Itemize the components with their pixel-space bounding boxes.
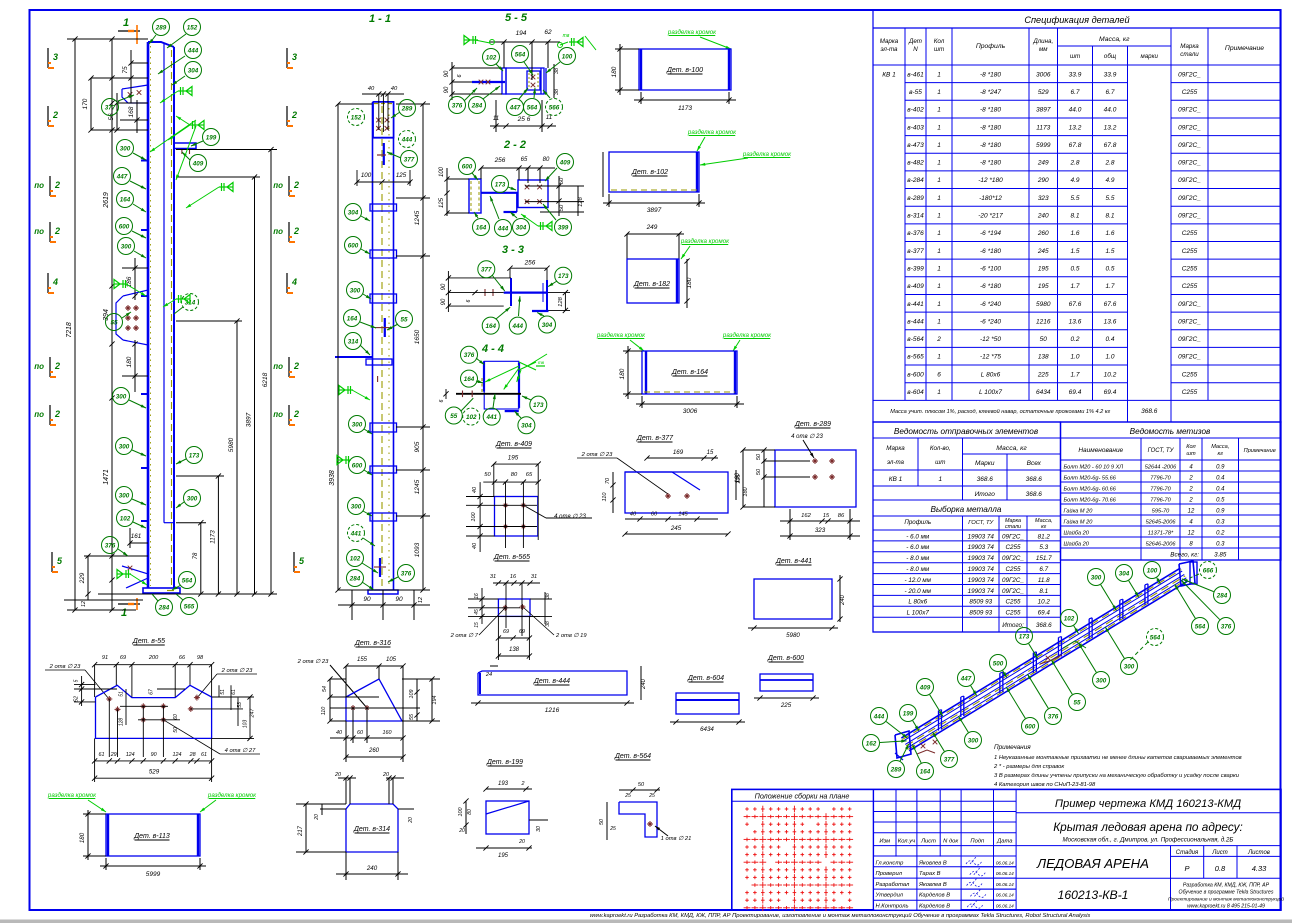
svg-text:300: 300 [119, 492, 130, 499]
svg-text:2.8: 2.8 [1069, 160, 1079, 167]
svg-text:в-604: в-604 [907, 389, 924, 396]
svg-text:шт: шт [1186, 451, 1196, 457]
svg-text:2 * - размеры для справок: 2 * - размеры для справок [993, 764, 1064, 770]
svg-text:09Г2С_: 09Г2С_ [1178, 124, 1201, 131]
svg-text:600: 600 [348, 242, 359, 249]
svg-text:90: 90 [395, 596, 403, 603]
detail v-100 body [639, 49, 731, 90]
svg-text:в-402: в-402 [907, 107, 924, 114]
title right top cell [1016, 812, 1281, 814]
column 1-1 mid plate 314 [335, 356, 373, 358]
svg-text:С255: С255 [1182, 89, 1198, 96]
svg-text:5980: 5980 [786, 632, 800, 639]
svg-text:Дет. в-444: Дет. в-444 [533, 678, 570, 685]
svg-text:1173: 1173 [1036, 124, 1050, 131]
iso beam right end plate [1179, 561, 1195, 586]
svg-text:ЛЕДОВАЯ АРЕНА: ЛЕДОВАЯ АРЕНА [1036, 856, 1149, 871]
svg-text:- 8.0 мм: - 8.0 мм [906, 566, 930, 573]
svg-text:160: 160 [735, 472, 741, 483]
svg-text:стали: стали [1005, 524, 1021, 530]
svg-text:-6 *240: -6 *240 [980, 318, 1001, 325]
svg-text:194: 194 [432, 696, 438, 705]
svg-text:173: 173 [495, 181, 506, 188]
svg-text:09Г2С_: 09Г2С_ [1178, 213, 1201, 220]
section 4-4 shape [484, 361, 519, 409]
dim 168 [136, 100, 138, 133]
svg-text:шт: шт [1070, 53, 1080, 60]
svg-text:3897: 3897 [1036, 107, 1051, 114]
svg-text:86: 86 [838, 513, 845, 519]
svg-text:5 - 5: 5 - 5 [505, 12, 528, 24]
svg-text:67.8: 67.8 [1104, 142, 1117, 149]
svg-text:N: N [913, 46, 918, 53]
dim chain 170 56 [90, 78, 92, 130]
svg-text:600: 600 [352, 462, 363, 469]
svg-text:1 - 1: 1 - 1 [369, 13, 391, 25]
svg-text:60: 60 [651, 512, 658, 518]
svg-text:4.33: 4.33 [1252, 864, 1267, 873]
svg-text:1.5: 1.5 [1070, 248, 1079, 255]
svg-text:в-444: в-444 [907, 318, 924, 325]
pos circle 444 [185, 42, 202, 59]
svg-text:3 В размерах длины учтены при: 3 В размерах длины учтены припуски на ме… [994, 773, 1240, 779]
svg-text:19903 74: 19903 74 [968, 588, 995, 595]
svg-text:1: 1 [937, 89, 941, 96]
svg-text:314: 314 [348, 338, 359, 345]
svg-text:1471: 1471 [103, 469, 110, 485]
svg-text:300: 300 [187, 495, 198, 502]
svg-text:в-403: в-403 [907, 124, 924, 131]
svg-text:2: 2 [1188, 487, 1193, 493]
svg-text:Р: Р [1184, 864, 1189, 873]
svg-text:в-284: в-284 [907, 177, 924, 184]
pos circle 300c [113, 388, 130, 405]
svg-text:20: 20 [458, 828, 465, 834]
pos circle 314 [182, 294, 199, 311]
svg-text:1: 1 [937, 248, 941, 255]
svg-text:3: 3 [53, 52, 58, 62]
svg-text:1 отв ∅ 21: 1 отв ∅ 21 [661, 835, 692, 842]
svg-text:11.8: 11.8 [1038, 577, 1050, 584]
svg-text:300: 300 [351, 503, 362, 510]
lime leaders down column [150, 120, 196, 152]
right dim 5980 [236, 321, 238, 594]
svg-text:40: 40 [630, 512, 637, 518]
svg-text:25 6: 25 6 [517, 116, 531, 123]
svg-text:-8 *180: -8 *180 [980, 124, 1001, 131]
svg-text:5.5: 5.5 [1070, 195, 1079, 202]
iso beam stiffeners [937, 711, 939, 731]
iso beam green flag mid [1063, 641, 1086, 648]
svg-text:368.6: 368.6 [1026, 476, 1043, 483]
svg-text:376: 376 [1048, 713, 1059, 720]
svg-text:1: 1 [937, 230, 941, 237]
svg-text:5999: 5999 [1036, 142, 1051, 149]
hardware table [1061, 422, 1282, 560]
svg-text:эл-та: эл-та [887, 459, 905, 466]
svg-text:65: 65 [521, 157, 528, 163]
svg-text:1: 1 [937, 177, 941, 184]
svg-text:6: 6 [937, 371, 941, 378]
svg-text:2619: 2619 [103, 192, 110, 209]
detail v-565 dims [493, 582, 540, 584]
svg-text:2 отв ∅ 23: 2 отв ∅ 23 [581, 451, 613, 458]
pos circle 409 [190, 155, 207, 172]
svg-text:284: 284 [349, 575, 361, 582]
svg-text:- 12.0 мм: - 12.0 мм [905, 577, 932, 584]
section 5-5 welds [464, 39, 478, 41]
svg-text:90: 90 [444, 70, 450, 77]
column 1-1 mid web plate [383, 143, 385, 165]
svg-text:Дата: Дата [996, 838, 1013, 844]
svg-text:тв: тв [538, 360, 545, 365]
svg-text:128: 128 [118, 718, 124, 727]
hardware rows [1061, 470, 1282, 472]
svg-text:2: 2 [52, 110, 58, 120]
svg-text:1216: 1216 [1036, 318, 1051, 325]
svg-text:Яковлев В: Яковлев В [918, 882, 947, 888]
svg-text:180: 180 [743, 486, 749, 496]
svg-text:09Г2С_: 09Г2С_ [1178, 71, 1201, 78]
section markers right side [286, 48, 288, 68]
svg-text:2: 2 [521, 781, 525, 787]
svg-text:4 отв ∅ 27: 4 отв ∅ 27 [225, 747, 256, 754]
pos circle 289 [153, 19, 170, 36]
svg-text:50: 50 [599, 819, 605, 825]
pos circle 300a [117, 140, 134, 157]
svg-text:69: 69 [519, 629, 525, 635]
left column flange stubs [141, 160, 148, 162]
detail v-377 body [625, 472, 728, 513]
pos circle 300f [184, 490, 201, 507]
svg-text:5.5: 5.5 [1105, 195, 1114, 202]
svg-text:80: 80 [511, 472, 518, 478]
shipping elements total row [873, 499, 1061, 501]
svg-text:Разработал: Разработал [876, 882, 911, 888]
svg-text:200: 200 [148, 655, 159, 661]
svg-text:50: 50 [756, 453, 762, 460]
svg-text:09Г2С_: 09Г2С_ [1178, 142, 1201, 149]
svg-text:25: 25 [648, 793, 655, 799]
svg-text:2.8: 2.8 [1104, 160, 1114, 167]
svg-text:128: 128 [558, 296, 564, 306]
svg-text:376: 376 [105, 542, 116, 549]
svg-text:1: 1 [937, 107, 941, 114]
svg-text:240: 240 [641, 678, 647, 690]
svg-text:Положение сборки на плане: Положение сборки на плане [755, 791, 850, 800]
svg-text:20: 20 [334, 772, 341, 778]
dim 75 [130, 50, 132, 103]
svg-text:160: 160 [383, 730, 392, 736]
svg-text:300: 300 [1124, 663, 1135, 670]
svg-text:1: 1 [937, 301, 941, 308]
svg-text:6: 6 [439, 399, 445, 402]
svg-text:249: 249 [646, 224, 658, 231]
svg-text:0.5: 0.5 [1070, 265, 1079, 272]
svg-text:564: 564 [1150, 634, 1161, 641]
svg-text:44.0: 44.0 [1069, 107, 1082, 114]
svg-text:65: 65 [526, 472, 533, 478]
svg-text:С255: С255 [1005, 599, 1021, 606]
svg-text:69: 69 [120, 655, 126, 661]
svg-text:в-409: в-409 [907, 283, 924, 290]
svg-text:разделка кромок: разделка кромок [47, 792, 97, 799]
svg-text:4 отв ∅ 23: 4 отв ∅ 23 [554, 513, 586, 520]
svg-text:447: 447 [960, 675, 972, 682]
detail v-316 body [346, 679, 402, 721]
svg-text:Дет. в-604: Дет. в-604 [687, 675, 724, 682]
svg-text:Гайка М 20: Гайка М 20 [1064, 508, 1094, 515]
svg-text:529: 529 [149, 769, 160, 776]
svg-text:L 100х7: L 100х7 [907, 610, 930, 617]
svg-text:8509 93: 8509 93 [969, 610, 992, 617]
pos circle 300b [118, 238, 135, 255]
svg-text:2: 2 [54, 409, 60, 419]
svg-text:разделка кромок: разделка кромок [742, 151, 792, 158]
svg-text:529: 529 [1038, 89, 1049, 96]
svg-text:Ведомость метизов: Ведомость метизов [1130, 427, 1211, 436]
svg-text:249: 249 [1037, 160, 1049, 167]
pos circle 55 [106, 314, 123, 331]
metal selection rows [873, 540, 1061, 542]
svg-text:300: 300 [1091, 574, 1102, 581]
detail v-564 dims [619, 789, 660, 791]
svg-text:6: 6 [466, 299, 472, 302]
column 1-1 web plate 55 [384, 318, 386, 337]
svg-text:61: 61 [231, 689, 237, 695]
pos circle 284b [156, 599, 173, 616]
spec table rows [905, 82, 1128, 84]
svg-text:217: 217 [298, 825, 304, 837]
svg-text:С255: С255 [1182, 248, 1198, 255]
svg-text:600: 600 [119, 223, 130, 230]
svg-text:19903 74: 19903 74 [968, 544, 995, 551]
svg-text:44.0: 44.0 [1104, 107, 1117, 114]
svg-text:195: 195 [1038, 283, 1049, 290]
svg-text:1.7: 1.7 [1105, 283, 1114, 290]
svg-text:-180*12: -180*12 [979, 195, 1002, 202]
pos circle 447 [114, 168, 131, 185]
svg-text:Дет. в-289: Дет. в-289 [794, 421, 831, 428]
svg-text:256: 256 [524, 260, 536, 267]
svg-text:-6 *194: -6 *194 [980, 230, 1001, 237]
svg-text:304: 304 [188, 67, 199, 74]
svg-text:в-564: в-564 [907, 336, 924, 343]
svg-text:09Г2С_: 09Г2С_ [1002, 533, 1024, 540]
svg-text:50: 50 [559, 177, 565, 184]
svg-text:199: 199 [206, 134, 217, 141]
base line [98, 593, 277, 595]
svg-text:368.6: 368.6 [977, 476, 994, 483]
svg-text:260: 260 [368, 748, 380, 754]
svg-text:376: 376 [464, 352, 475, 359]
svg-text:240: 240 [840, 594, 846, 606]
svg-text:2: 2 [54, 361, 60, 371]
svg-text:3938: 3938 [329, 470, 336, 486]
svg-text:40: 40 [391, 86, 398, 92]
svg-text:Марка: Марка [886, 445, 905, 452]
svg-text:Лист: Лист [920, 838, 936, 844]
svg-text:5999: 5999 [146, 871, 161, 878]
svg-text:90: 90 [441, 283, 447, 290]
svg-text:шт: шт [935, 459, 945, 466]
svg-text:2: 2 [1188, 498, 1193, 504]
svg-text:124: 124 [173, 752, 182, 758]
hardware table header [1061, 459, 1282, 461]
column 1-1 top plate [373, 102, 394, 138]
svg-text:6218: 6218 [262, 372, 269, 387]
right dim 6218 [270, 150, 272, 595]
svg-text:409: 409 [559, 159, 571, 166]
detail v-314 dims [338, 777, 356, 779]
svg-text:-8 *180: -8 *180 [980, 142, 1001, 149]
svg-text:16: 16 [510, 574, 517, 580]
detail v-444 dims [490, 665, 498, 667]
svg-text:0.8: 0.8 [1215, 864, 1226, 873]
svg-text:Дет. в-409: Дет. в-409 [495, 441, 532, 448]
column 1-1 bottom detail [379, 558, 381, 577]
svg-text:199: 199 [903, 710, 914, 717]
svg-text:КВ 1: КВ 1 [882, 71, 896, 78]
svg-text:50: 50 [638, 782, 645, 788]
section 3-3 dims [448, 277, 511, 279]
svg-text:25: 25 [609, 826, 616, 832]
spec table title [873, 27, 1281, 29]
svg-text:Дет. в-55: Дет. в-55 [132, 638, 165, 645]
svg-text:09Г2С_: 09Г2С_ [1178, 195, 1201, 202]
svg-text:595-70: 595-70 [1152, 509, 1170, 515]
svg-text:145: 145 [678, 512, 688, 518]
svg-text:164: 164 [920, 768, 931, 775]
svg-text:90: 90 [363, 596, 371, 603]
svg-text:0.3: 0.3 [1216, 520, 1225, 526]
svg-text:3.85: 3.85 [1214, 552, 1227, 559]
svg-text:марки: марки [1141, 53, 1159, 60]
svg-text:300: 300 [121, 243, 132, 250]
svg-text:Дет. в-113: Дет. в-113 [133, 833, 170, 840]
detail v-289 dims [763, 450, 765, 507]
svg-text:102: 102 [120, 515, 131, 522]
svg-text:300: 300 [120, 145, 131, 152]
svg-text:8.1: 8.1 [1070, 213, 1079, 220]
spec table footer row [873, 399, 1281, 401]
detail v-55 body [96, 685, 212, 738]
svg-text:-8 *247: -8 *247 [980, 89, 1001, 96]
svg-text:0.5: 0.5 [1216, 498, 1225, 504]
left column base plate [143, 588, 180, 593]
svg-text:Дет. в-565: Дет. в-565 [493, 554, 530, 561]
svg-text:Кол.уч: Кол.уч [898, 838, 915, 844]
svg-text:Всех: Всех [1027, 460, 1042, 467]
column 1-1 body [372, 102, 374, 590]
svg-text:16: 16 [474, 593, 480, 599]
detail v-409 body [495, 497, 538, 537]
svg-text:300: 300 [119, 443, 130, 450]
svg-text:Болт М20-6g- 55.66: Болт М20-6g- 55.66 [1064, 476, 1117, 482]
1-1 weld marks [339, 389, 353, 391]
section 4-4 weld cross [519, 362, 536, 370]
svg-text:20: 20 [314, 814, 320, 821]
svg-text:284: 284 [471, 102, 483, 109]
svg-text:30: 30 [536, 826, 542, 832]
svg-text:600: 600 [1025, 723, 1036, 730]
detail v-564 body [619, 802, 657, 837]
svg-text:162: 162 [866, 740, 877, 747]
svg-text:1173: 1173 [210, 530, 217, 544]
svg-text:173: 173 [533, 402, 544, 409]
svg-text:564: 564 [527, 104, 538, 111]
svg-text:441: 441 [350, 530, 362, 537]
svg-text:100: 100 [458, 808, 464, 817]
svg-text:138: 138 [509, 647, 520, 653]
detail v-100 dims [619, 44, 621, 95]
svg-text:13.2: 13.2 [1069, 124, 1082, 131]
weld symbols left view [178, 90, 192, 92]
svg-text:102: 102 [350, 555, 361, 562]
svg-text:Шайба 20: Шайба 20 [1064, 541, 1090, 548]
svg-text:в-376: в-376 [907, 230, 924, 237]
svg-text:4: 4 [291, 277, 297, 287]
svg-text:Листов: Листов [1247, 850, 1270, 856]
svg-text:в-482: в-482 [907, 160, 924, 167]
svg-text:6434: 6434 [700, 726, 714, 733]
svg-text:-12 *50: -12 *50 [980, 336, 1001, 343]
svg-text:164: 164 [485, 323, 496, 330]
svg-text:180: 180 [686, 277, 693, 288]
svg-text:3: 3 [292, 52, 297, 62]
svg-text:L 100х7: L 100х7 [979, 389, 1002, 396]
svg-text:Тарах В: Тарах В [919, 871, 941, 877]
spec table header [904, 28, 906, 400]
svg-text:Масса,: Масса, [1211, 444, 1229, 450]
iso dashed leader 666 [1190, 574, 1199, 578]
svg-text:Дет: Дет [908, 38, 922, 45]
svg-text:0.9: 0.9 [1216, 509, 1225, 515]
svg-text:90: 90 [441, 298, 447, 305]
svg-text:L 80х6: L 80х6 [908, 599, 927, 606]
svg-text:75: 75 [122, 66, 129, 74]
svg-text:Масса, кг: Масса, кг [1099, 36, 1130, 43]
svg-text:1: 1 [121, 607, 127, 619]
detail v-600 body [760, 674, 813, 691]
svg-text:78: 78 [193, 552, 199, 559]
svg-text:1.6: 1.6 [1105, 230, 1114, 237]
svg-text:195: 195 [498, 853, 509, 859]
svg-text:Подп: Подп [970, 838, 985, 844]
svg-text:2 отв ∅ 19: 2 отв ∅ 19 [555, 632, 587, 639]
shipping elements table [873, 422, 1061, 632]
title object cell [1170, 846, 1172, 910]
svg-text:138: 138 [1038, 354, 1049, 361]
svg-text:164: 164 [120, 196, 131, 203]
pos circle 300e [116, 487, 133, 504]
column 1-1 centerline [381, 106, 383, 588]
svg-text:6434: 6434 [1036, 389, 1051, 396]
svg-text:7796-70: 7796-70 [1150, 476, 1171, 482]
svg-text:225: 225 [780, 702, 792, 709]
svg-text:180: 180 [79, 832, 86, 843]
svg-text:376: 376 [401, 570, 412, 577]
svg-text:24: 24 [485, 672, 492, 678]
svg-text:15: 15 [823, 513, 830, 519]
svg-text:8509 93: 8509 93 [969, 599, 992, 606]
section 5-5 circles [483, 49, 500, 66]
svg-text:245: 245 [1037, 248, 1049, 255]
detail v-164 body [642, 351, 737, 394]
iso beam outline [901, 568, 1180, 738]
svg-text:100: 100 [361, 172, 372, 179]
section 2-2 weld [538, 225, 552, 227]
